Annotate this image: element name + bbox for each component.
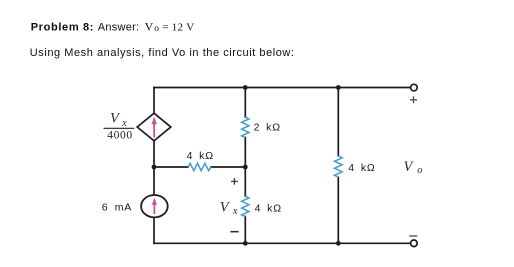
wire right branch upper — [337, 88, 339, 156]
svg-text:4 kΩ: 4 kΩ — [255, 203, 282, 215]
junction node mid right — [243, 165, 248, 170]
svg-text:x: x — [121, 118, 127, 129]
wire middle horizontal right of 4k resistor — [211, 166, 245, 168]
wire bottom horizontal — [154, 242, 410, 244]
svg-text:Problem 8:: Problem 8: — [31, 22, 94, 34]
junction node mid left — [152, 165, 157, 170]
svg-text:4 kΩ: 4 kΩ — [348, 162, 375, 174]
label Vo — [404, 159, 423, 176]
label 2 kOhm — [254, 122, 281, 134]
svg-text:V: V — [404, 159, 415, 175]
label 6 mA — [102, 202, 132, 214]
wire left branch upper vertical — [153, 88, 155, 114]
svg-text:2 kΩ: 2 kΩ — [254, 122, 281, 134]
resistor 2 kOhm vertical — [242, 117, 249, 138]
svg-text:6 mA: 6 mA — [102, 202, 132, 214]
svg-text:V: V — [220, 199, 231, 215]
title text line 1 — [31, 20, 195, 34]
junction node top middle — [243, 85, 248, 90]
wire top horizontal — [154, 87, 410, 89]
svg-text:= 12 V: = 12 V — [162, 22, 194, 34]
output terminal bottom — [411, 240, 418, 247]
resistor 4 kOhm right branch — [334, 156, 342, 177]
minus sign output terminal — [409, 235, 417, 237]
plus sign Vx — [231, 178, 238, 185]
label 4 kOhm middle vertical resistor — [255, 203, 282, 215]
minus sign Vx — [230, 231, 238, 233]
wire middle branch between resistors — [244, 138, 246, 197]
wire middle branch bottom segment — [244, 217, 246, 244]
wire current source bottom to bottom wire — [153, 217, 155, 243]
resistor 4 kOhm vertical (Vx) — [242, 196, 249, 216]
title text line 2 — [30, 47, 295, 59]
wire mid node to current source top — [153, 167, 155, 195]
label Vx across middle resistor — [220, 199, 238, 217]
svg-text:o: o — [417, 165, 422, 176]
svg-text:V: V — [145, 20, 154, 34]
svg-text:4000: 4000 — [107, 130, 132, 142]
svg-text:Answer:: Answer: — [98, 22, 140, 34]
plus sign output terminal — [410, 96, 417, 103]
wire diamond bottom to mid node — [153, 141, 155, 168]
wire middle horizontal left of 4k resistor — [154, 166, 188, 168]
independent current source 6 mA — [141, 195, 168, 217]
junction node bottom middle — [243, 241, 248, 246]
svg-text:4 kΩ: 4 kΩ — [187, 150, 214, 162]
svg-text:Using Mesh analysis, find Vo i: Using Mesh analysis, find Vo in the circ… — [30, 47, 295, 59]
resistor 4 kOhm horizontal — [188, 163, 211, 170]
junction node bottom right — [336, 241, 341, 246]
svg-text:V: V — [110, 111, 121, 127]
svg-text:o: o — [154, 24, 159, 34]
svg-text:x: x — [232, 206, 238, 217]
wire middle branch top segment — [244, 88, 246, 118]
output terminal top — [411, 84, 418, 91]
label 4 kOhm horizontal resistor — [187, 150, 214, 162]
label Vx/4000 fraction — [104, 111, 135, 142]
dependent current source diamond Vx/4000 — [137, 113, 171, 141]
wire right branch lower — [337, 178, 339, 244]
junction node top right — [336, 85, 341, 90]
label 4 kOhm right resistor — [348, 162, 375, 174]
